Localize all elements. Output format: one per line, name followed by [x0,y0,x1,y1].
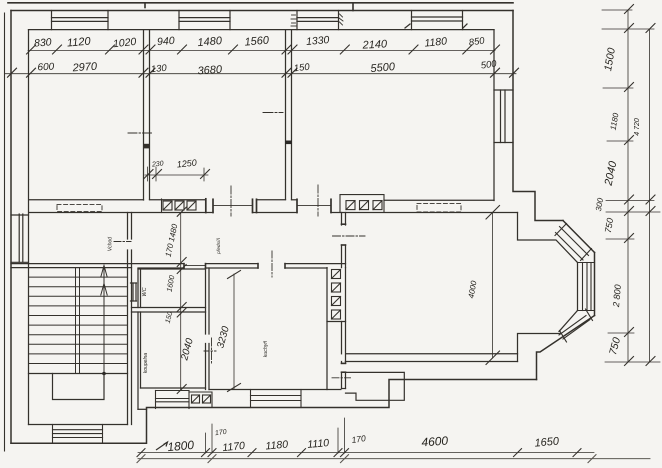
kitchen window bottom wall [251,390,302,408]
svg-text:předsíň: předsíň [216,238,222,255]
bay outer wall upper diagonal [563,221,595,253]
outline: bottom terrace edge [11,380,537,444]
svg-text:1800: 1800 [167,438,195,454]
door jambs middle band [206,199,331,213]
page frame left [4,13,6,451]
kitchen chimney column [327,268,346,390]
window W4 jamb flags [405,24,467,28]
axis dash room2 right [263,112,283,114]
stair landing bottom wall [29,424,128,426]
bay window upper diagonal glazing [555,224,592,261]
bay outer wall front [594,253,596,316]
svg-text:1180: 1180 [424,35,448,49]
window W4 top wall [412,11,463,30]
svg-text:1110: 1110 [307,437,330,451]
bay inner bottom ledge [518,334,561,362]
bottom extension verticals [206,418,345,453]
dimension 4000 interior [486,206,500,365]
wall: right outer with step to bay [513,11,563,221]
dimension row1 ticks [27,45,500,54]
dimension 3230 line [228,271,241,392]
svg-text:WC: WC [142,287,148,296]
svg-text:230: 230 [151,160,164,168]
door axis hallway-big room [333,235,366,237]
window W1 top wall [52,11,109,30]
svg-text:4 720: 4 720 [634,118,641,136]
koupelna bottom inner edge [141,387,206,389]
kitchen door axis [271,251,273,277]
chain x181 ticks [177,207,186,393]
kitchen door jambs [184,264,285,268]
svg-text:5500: 5500 [370,61,396,75]
WC door threshold [184,265,206,267]
wall: hallway/kitchen band top edge [11,263,346,265]
svg-text:170: 170 [351,433,367,445]
door axis to room3 [317,185,319,216]
svg-text:2970: 2970 [71,61,98,75]
svg-text:2 800: 2 800 [611,284,623,308]
dimension row2 line [5,73,516,75]
shaft between stair and WC [131,283,137,301]
svg-text:1650: 1650 [534,435,560,449]
bottom chain ticks [137,449,581,457]
stair lower landing void [53,374,105,400]
koupelna outer step [138,408,147,410]
door axis to room2 [230,186,232,216]
staircase steps [29,277,128,363]
wall: middle band bottom edge [30,212,518,214]
svg-text:600: 600 [37,62,55,74]
staircase middle stringers [76,268,80,374]
back door axis [332,377,351,379]
back door wall below big room [342,362,346,389]
window W2 top wall [179,11,230,30]
svg-text:4600: 4600 [421,434,449,450]
svg-text:1120: 1120 [66,35,91,49]
page frame top [8,3,513,11]
svg-text:1560: 1560 [244,34,270,48]
page frame bottom [138,458,650,460]
wall: room1-room2 partition [144,30,150,200]
bay outer wall lower diagonal [537,316,595,380]
wall: hallway/kitchen band bottom edge [11,267,327,269]
dimension row1 line [28,50,495,52]
svg-text:koupelna: koupelna [143,353,149,374]
entry door block [53,425,103,444]
bay window front glazing [578,263,595,311]
dashed niche below room1 [57,205,102,212]
door axis room1-room2 [128,132,152,134]
WC room walls [132,269,206,312]
svg-text:1180: 1180 [265,439,289,453]
correction mark before 1800 [156,442,168,450]
svg-text:1480: 1480 [197,35,223,49]
back door jambs [342,363,346,372]
wall: right inner face [493,30,495,201]
svg-text:2140: 2140 [361,38,388,51]
window W3 top wall [297,11,339,30]
svg-text:150: 150 [293,62,311,75]
bay inner corner top [518,213,578,263]
wall: left outer [10,11,12,444]
svg-text:kuchyň: kuchyň [263,341,269,358]
staircase up arrow [101,266,107,376]
dimension bottom chain line1 [138,452,594,454]
svg-text:940: 940 [157,35,175,48]
svg-text:500: 500 [480,58,498,71]
chain A ticks [625,5,634,366]
bay inner front face [577,263,579,311]
chimney block below kitchen [189,392,212,408]
svg-text:1170: 1170 [222,440,246,454]
chimney block below room2 [162,199,197,213]
bay inner lower diagonal [559,311,578,332]
dimension chain vertical x181 (170/1480/1600/150/2040) [180,213,182,390]
dashed niche below room3 [417,204,461,212]
wall: hallway east / big room west [342,213,346,362]
kitchen west wall [206,268,210,390]
wall: top outer edge [11,10,513,12]
exterior steps by kitchen [342,372,405,400]
window left wall (stair) [11,214,29,262]
window right wall [494,90,513,143]
bay window lower diagonal glazing [559,309,593,342]
dimension 230/1250 room2 [144,167,210,181]
window W3 jamb hatch marks [291,14,343,26]
door thresholds middle band [213,205,331,207]
koupelna window [156,391,190,409]
wall: big room bottom outer [346,361,518,363]
bottom chain line2 ticks [137,455,596,463]
svg-text:1250: 1250 [176,157,197,169]
door axis Vchod [114,241,131,243]
wall: room2-room3 partition [286,30,292,200]
wall: top inner edge [29,29,495,31]
svg-text:3680: 3680 [197,64,223,78]
wall: left inner face [28,30,30,425]
svg-text:1020: 1020 [112,36,137,50]
dimension chain A right [627,10,629,362]
kitchen bottom inner edge [209,389,341,391]
wall: middle band top edge (rooms bottom) [30,199,495,202]
dimension chain B right (total) [649,29,651,362]
wall break mark room1-room2 [143,144,150,149]
kitchen west door leaf [211,338,213,364]
wall: big room bottom inner [347,353,518,355]
right extension lines [602,10,660,362]
wall: hallway west (stair side) [128,213,132,425]
door jambs hallway-big room [342,224,346,245]
svg-text:830: 830 [34,36,52,49]
svg-text:1330: 1330 [306,34,330,48]
svg-text:850: 850 [468,35,486,48]
wall break mark room2-room3 [285,141,292,145]
chimney block below room3 [340,195,384,213]
dimension row2 ticks [8,68,519,77]
koupelna west wall [138,312,141,409]
chain B ticks [646,24,655,366]
svg-text:130: 130 [150,63,167,75]
staircase landing edge [29,373,128,375]
svg-text:Vchod: Vchod [108,237,114,251]
axis mark koupelna east wall [204,350,216,352]
